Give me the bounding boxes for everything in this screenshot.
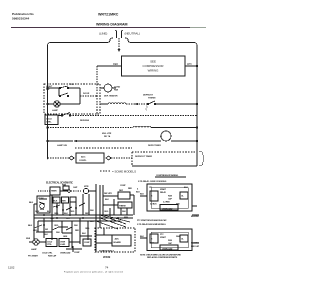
- svg-text:PTC START: PTC START: [28, 255, 39, 258]
- svg-text:COMP: COMP: [84, 242, 90, 244]
- svg-text:DOOR: DOOR: [83, 93, 90, 95]
- svg-text:RED/WHI: RED/WHI: [80, 120, 89, 122]
- svg-text:LAMP: LAMP: [52, 109, 59, 112]
- svg-text:Frigidaire parts and service: Frigidaire parts and service publication…: [64, 271, 123, 274]
- svg-text:FAN: FAN: [62, 184, 66, 187]
- svg-text:WHI: WHI: [90, 210, 94, 212]
- svg-text:GRN: GRN: [35, 211, 40, 213]
- svg-text:THERM: THERM: [148, 98, 156, 100]
- svg-text:ADC: ADC: [115, 238, 120, 241]
- svg-text:DEFROST TIMER: DEFROST TIMER: [135, 156, 152, 158]
- svg-text:COND: COND: [114, 87, 121, 89]
- svg-text:COMPRESSOR: COMPRESSOR: [143, 64, 164, 68]
- svg-text:ORG: ORG: [85, 228, 90, 230]
- svg-text:215049: 215049: [103, 256, 111, 259]
- svg-text:WHI: WHI: [66, 218, 70, 220]
- svg-text:BLK: BLK: [28, 225, 33, 227]
- svg-text:Publication No: Publication No: [12, 12, 34, 16]
- svg-text:CAP: CAP: [73, 186, 78, 189]
- svg-text:GRN: GRN: [63, 236, 68, 238]
- svg-text:TIMER: TIMER: [51, 191, 57, 193]
- svg-text:RELAY: RELAY: [160, 191, 167, 194]
- svg-text:RD 7A: RD 7A: [104, 135, 111, 138]
- svg-text:RUN CAP: RUN CAP: [48, 255, 57, 258]
- svg-text:WHI: WHI: [74, 225, 78, 227]
- svg-text:SEE: SEE: [150, 60, 156, 64]
- svg-text:BOARD: BOARD: [114, 241, 122, 244]
- svg-text:ORG: ORG: [54, 225, 59, 227]
- svg-text:SW: SW: [46, 89, 49, 91]
- svg-text:BLK/WHI: BLK/WHI: [191, 216, 199, 218]
- svg-text:THERM: THERM: [119, 206, 126, 208]
- svg-text:= SOME MODELS: = SOME MODELS: [112, 170, 136, 174]
- svg-text:1102: 1102: [8, 266, 15, 270]
- svg-text:74: 74: [105, 266, 109, 270]
- svg-text:COLD CTRL: COLD CTRL: [42, 253, 53, 255]
- svg-text:DEF. HEATER: DEF. HEATER: [104, 95, 118, 98]
- svg-text:OVERLOAD: OVERLOAD: [60, 252, 71, 255]
- svg-text:WHI: WHI: [122, 211, 126, 213]
- svg-text:COMPL: COMPL: [79, 160, 87, 162]
- svg-text:5995210344: 5995210344: [12, 17, 29, 21]
- svg-text:WHI: WHI: [40, 209, 44, 211]
- svg-text:OVERLOAD: OVERLOAD: [162, 248, 173, 251]
- svg-text:ORG: ORG: [54, 213, 59, 215]
- svg-text:WHI: WHI: [176, 236, 180, 238]
- svg-text:START: START: [160, 188, 167, 191]
- svg-text:CTRL: CTRL: [46, 122, 52, 124]
- svg-text:WHI: WHI: [26, 238, 30, 240]
- svg-text:OVERLOAD: OVERLOAD: [162, 208, 173, 211]
- svg-text:S.T.D. RELAY IS IN SOME MODELS: S.T.D. RELAY IS IN SOME MODELS: [137, 223, 166, 226]
- svg-text:WHI: WHI: [176, 204, 180, 206]
- svg-text:2-3 RED: 2-3 RED: [163, 202, 170, 204]
- svg-text:S.T.D. RELAY - SOME 1.5 MODELS: S.T.D. RELAY - SOME 1.5 MODELS: [138, 180, 167, 183]
- svg-text:LOAD: LOAD: [60, 243, 66, 246]
- svg-text:REPLACING COMPRESSOR PARTS: REPLACING COMPRESSOR PARTS: [147, 256, 178, 259]
- svg-text:BLK: BLK: [29, 202, 34, 204]
- svg-text:COMP: COMP: [120, 185, 126, 187]
- svg-text:COMPRESSOR WIRING: COMPRESSOR WIRING: [156, 175, 178, 177]
- svg-text:ELECTRICAL SCHEMATIC: ELECTRICAL SCHEMATIC: [46, 182, 73, 185]
- svg-text:RED: RED: [113, 63, 118, 66]
- svg-text:ORG: ORG: [104, 211, 109, 213]
- svg-text:WIRING DIAGRAM: WIRING DIAGRAM: [96, 23, 128, 27]
- svg-text:ORG: ORG: [33, 230, 38, 232]
- svg-text:COMP: COMP: [74, 252, 80, 254]
- svg-text:DEFROST: DEFROST: [143, 95, 154, 97]
- svg-text:(LINE): (LINE): [99, 32, 107, 36]
- svg-text:FAN: FAN: [114, 89, 119, 92]
- svg-text:DEF HTR: DEF HTR: [104, 193, 112, 195]
- svg-text:START: START: [160, 236, 167, 239]
- svg-text:WHI: WHI: [62, 201, 66, 203]
- svg-text:MUL HTR: MUL HTR: [102, 133, 112, 135]
- svg-text:SOME MODELS: SOME MODELS: [99, 251, 114, 253]
- svg-text:WIRING: WIRING: [148, 69, 160, 73]
- svg-text:5-2 BLK: 5-2 BLK: [150, 204, 157, 206]
- svg-text:ADC: ADC: [81, 156, 86, 159]
- svg-text:BLK/WHI: BLK/WHI: [191, 243, 199, 245]
- svg-text:RED CAP: RED CAP: [191, 245, 200, 248]
- svg-text:ORG: ORG: [70, 211, 75, 213]
- svg-text:LAMP SW: LAMP SW: [57, 144, 67, 147]
- svg-text:WRT21MRC: WRT21MRC: [98, 13, 119, 17]
- svg-text:LT SW: LT SW: [38, 198, 44, 200]
- svg-text:SW: SW: [45, 229, 48, 231]
- svg-text:M: M: [160, 137, 162, 139]
- svg-text:(NEUTRAL): (NEUTRAL): [125, 32, 140, 36]
- svg-text:WHI: WHI: [56, 232, 60, 234]
- svg-text:WHI: WHI: [187, 63, 192, 66]
- svg-text:MTR: MTR: [84, 186, 89, 188]
- svg-text:COLD: COLD: [46, 119, 52, 121]
- svg-text:PTC START DEVICE AND RUN CAP.: PTC START DEVICE AND RUN CAP.: [137, 219, 167, 222]
- svg-text:LAMP: LAMP: [31, 248, 37, 251]
- svg-text:DEFR TIMER: DEFR TIMER: [148, 145, 161, 147]
- svg-text:LIGHT: LIGHT: [46, 86, 53, 88]
